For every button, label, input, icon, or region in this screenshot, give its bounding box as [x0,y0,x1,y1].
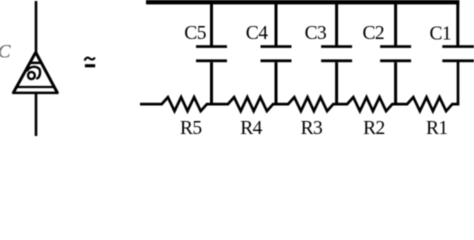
svg-text:C4: C4 [246,23,268,44]
svg-text:C: C [0,42,11,63]
svg-text:R4: R4 [240,118,262,136]
svg-text:R5: R5 [180,118,202,136]
svg-text:R3: R3 [301,118,323,136]
svg-text:C3: C3 [305,23,327,44]
svg-text:C5: C5 [184,23,206,44]
svg-text:R2: R2 [363,118,385,136]
svg-text:R1: R1 [426,118,448,136]
svg-text:C1: C1 [430,24,452,45]
svg-text:C2: C2 [363,23,385,44]
